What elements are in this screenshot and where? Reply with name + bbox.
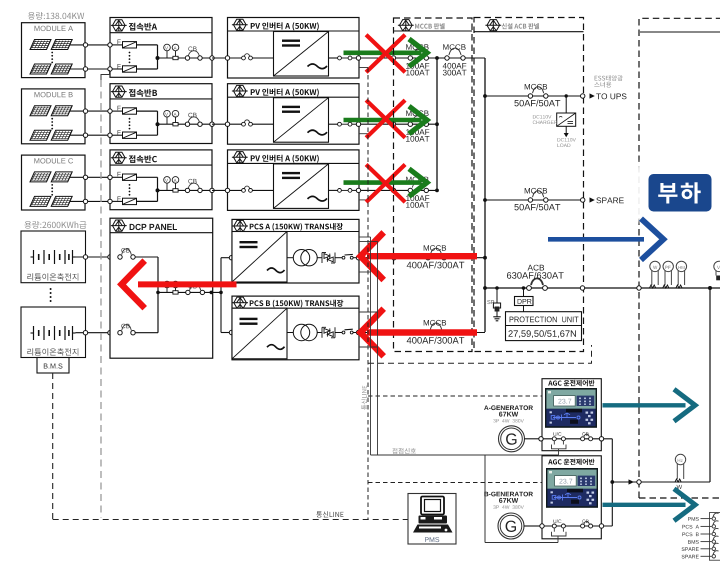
bus meter PF: [663, 261, 674, 288]
contact signal risers: [371, 237, 378, 455]
PCS B AC wire: [361, 320, 485, 344]
red X row1: [366, 35, 405, 73]
green arrow row3: [344, 169, 428, 197]
PV inverter A row1 (50KW): [212, 18, 368, 79]
PROTECTION UNIT box: [506, 312, 582, 341]
SPARE label: [596, 197, 623, 203]
green arrow row1: [344, 39, 428, 67]
MCCB panel header: [394, 20, 473, 31]
title 접속반B: [129, 89, 157, 97]
MCCB panel dashed box: [394, 18, 473, 352]
generator B breaker wire: [540, 519, 613, 528]
main LV bus: [485, 286, 720, 290]
label 리튬이온축전지: [27, 273, 78, 280]
title AGC 운전제어반: [548, 380, 594, 386]
title MCCB 판넬: [415, 23, 445, 29]
title PV 인버터 A (50KW): [251, 22, 319, 30]
generator A breaker wire: [539, 432, 613, 441]
ACB panel header: [474, 20, 584, 32]
DCP CB bottom: [118, 324, 158, 335]
PV module A box: [22, 23, 111, 78]
UPS branch MCCB 50AF/50AT: [485, 84, 595, 107]
dashed boundary mid: [368, 345, 592, 363]
AGC controller A image: [545, 388, 597, 428]
label 스너용: [594, 82, 611, 88]
BMS comm dashed: [52, 373, 54, 520]
title AGC 운전제어반: [548, 459, 594, 465]
PCS contact signal stubs: [359, 237, 378, 347]
title PV 인버터 A (50KW): [251, 89, 319, 97]
DCP CB out: [186, 284, 213, 295]
green arrow row2: [344, 106, 428, 134]
battery box 1: [21, 231, 112, 283]
load label glow: [634, 161, 720, 224]
PMS box: [408, 494, 456, 545]
DCP CB top: [118, 248, 158, 259]
PV module C box: [22, 155, 111, 210]
comm dashed riser: [367, 68, 369, 520]
bus meter HM: [676, 261, 687, 288]
title 접속반C: [129, 155, 157, 163]
PV inverter A row2 (50KW): [212, 84, 368, 145]
junction box A (접속반A): [108, 18, 214, 78]
gray boundary dashed line: [101, 70, 110, 518]
red arrow DCP: [122, 261, 237, 309]
red arrow PCS A: [361, 232, 478, 280]
AGC control panel A box: [542, 379, 601, 451]
MCCB 100AF/100AT row1: [361, 44, 439, 75]
PCS A AC wire: [361, 245, 485, 268]
PCS B box: [232, 296, 361, 360]
label ESS태양광: [595, 75, 623, 81]
PV module B box: [22, 89, 111, 144]
ACB panel dashed box: [474, 18, 584, 352]
DC110V charger: [557, 96, 576, 137]
junction box C (접속반C): [108, 150, 214, 210]
battery dots: [50, 288, 52, 302]
capacity text 2600KWh: [24, 221, 86, 229]
bus meter W: [650, 261, 661, 288]
battery box 2: [21, 307, 112, 358]
ACB 630AF/630AT: [507, 265, 564, 291]
comm line horizontal (통신LINE): [53, 519, 408, 521]
AGC B aux contact: [552, 528, 567, 542]
title PV 인버터 A (50KW): [251, 155, 319, 163]
generator bus tie: [612, 288, 710, 485]
generator A label: [484, 405, 533, 422]
DC link to PCS: [219, 256, 234, 335]
PV inverter A row3 (50KW): [212, 150, 368, 211]
load label (부하): [649, 174, 712, 212]
terminal rows: [682, 517, 699, 558]
DPR relay: [515, 288, 534, 312]
MCCB 400AF/300AT: [437, 44, 485, 75]
SP surge protector: [487, 288, 500, 321]
DC110V load label: [557, 138, 576, 147]
comm dashed to AGC B: [368, 482, 542, 484]
title PCS B (150KW) TRANS내장: [250, 300, 344, 308]
SPARE branch MCCB 50AF/50AT: [485, 188, 595, 211]
generator A: [499, 426, 541, 452]
MCCB panel collector bus: [436, 58, 438, 190]
AGC A aux contact: [552, 441, 567, 455]
label 통신LINE horizontal: [316, 511, 343, 517]
comm dashed to AGC A: [368, 395, 546, 397]
teal arrow gen A: [603, 389, 696, 421]
AGC controller B image: [546, 468, 598, 508]
contact signal line (접점신호): [371, 455, 559, 543]
DCP meters V A: [164, 281, 179, 294]
capacity text 138.04KW: [28, 12, 84, 20]
label 통신LINE vertical: [361, 386, 367, 410]
DC110V charger label: [533, 115, 558, 124]
title 신설 ACB 판넬: [502, 23, 539, 29]
blue arrow to load: [548, 219, 664, 260]
MCCB 100AF/100AT row3: [361, 177, 439, 208]
PCS A box: [232, 219, 361, 283]
DCP inner bus: [156, 257, 221, 333]
bus meter V (edge): [714, 261, 720, 280]
load panel dashed box (right): [639, 18, 720, 498]
title 접속반A: [129, 23, 157, 31]
generator watt meter: [675, 454, 686, 489]
TO UPS label: [596, 93, 626, 99]
label 접점신호: [392, 448, 416, 454]
generator A output riser: [610, 439, 614, 526]
red X row2: [366, 100, 405, 138]
generator B: [498, 513, 540, 539]
generator B label: [484, 492, 533, 509]
DCP panel box: [110, 218, 213, 358]
red X row3: [366, 165, 405, 203]
junction box B (접속반B): [108, 84, 214, 144]
PMS computer icon: [413, 497, 453, 533]
terminal block bracket: [710, 513, 720, 561]
teal arrow gen B: [603, 489, 696, 521]
load panel header line: [640, 31, 720, 33]
BMS box: [37, 358, 69, 374]
AGC control panel B box: [542, 456, 601, 539]
ACB panel main bus vertical: [483, 58, 487, 332]
title PCS A (150KW) TRANS내장: [250, 223, 343, 231]
MCCB 100AF/100AT row2: [361, 110, 439, 141]
load text 부하: [658, 182, 701, 203]
label 리튬이온축전지: [27, 348, 78, 355]
red arrow PCS B: [361, 309, 478, 357]
